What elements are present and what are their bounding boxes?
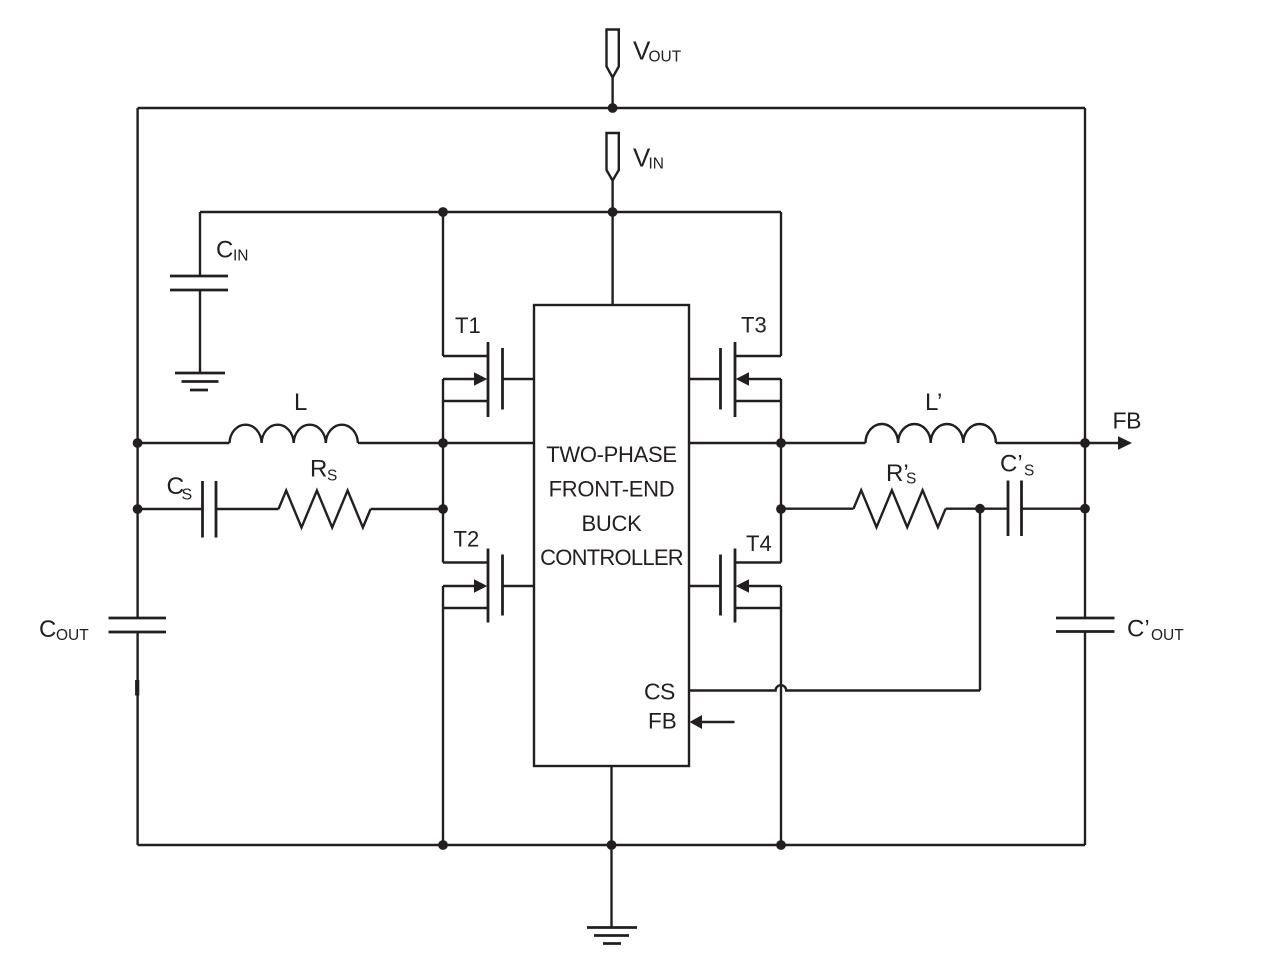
svg-text:C’: C’ [1127,616,1150,643]
svg-text:TWO-PHASE: TWO-PHASE [546,442,677,467]
label L' [925,389,942,416]
wire VIN to controller [611,212,613,305]
wire RS to node [371,508,443,510]
label R'S [886,460,916,488]
transistor T2 [443,443,534,845]
svg-text:IN: IN [649,156,665,173]
wire SW2 to L' [781,442,866,444]
svg-text:S: S [182,487,193,504]
wire L to SW1 node [358,442,443,444]
wire SW1 to controller [443,442,534,444]
FB pin arrow [690,715,735,729]
node T2 bottom junction [438,840,448,850]
svg-text:S: S [906,471,916,488]
resistor RS [279,491,371,528]
transistor T3 [689,212,781,443]
transistor T1 [443,212,534,443]
svg-text:FB: FB [1113,408,1142,434]
svg-text:L: L [294,389,307,416]
capacitor CIN [170,212,228,373]
wire controller to SW2 [689,442,781,444]
label COUT [39,616,89,644]
node L left junction [133,438,143,448]
svg-text:L’: L’ [925,389,942,416]
op-amp U1 controller box [534,305,689,766]
wire L' to FB node [996,442,1085,444]
label T4 [746,531,772,556]
svg-text:T4: T4 [746,531,772,556]
wire top VOUT rail [138,107,1085,109]
capacitor CS [138,481,279,538]
svg-text:C: C [216,237,233,264]
terminal VIN [607,133,619,212]
wire right rail lower [1084,632,1086,846]
transistor T4 [689,443,781,845]
svg-text:R: R [310,456,327,483]
node SW1 junction [438,438,448,448]
node sense junction [975,504,985,514]
svg-text:T3: T3 [741,313,767,338]
label pin FB [648,709,677,734]
label C'S [1000,451,1034,480]
terminal VOUT [607,30,619,109]
svg-text:T1: T1 [455,313,481,338]
svg-text:C: C [39,616,56,643]
svg-text:T2: T2 [454,527,480,552]
label L [294,389,307,416]
svg-text:OUT: OUT [1151,627,1184,644]
label CS [167,473,193,504]
wire ground stem [610,845,612,927]
svg-text:OUT: OUT [649,49,682,66]
node CS left junction [133,504,143,514]
label T3 [741,313,767,338]
svg-text:BUCK: BUCK [582,511,643,536]
node VIN-rail junction [608,207,618,217]
label VIN [633,143,664,173]
label CIN [216,237,249,265]
capacitor COUT [109,618,167,632]
wire bottom rail [138,844,1085,846]
node FB junction [1080,438,1090,448]
wire controller ground [610,766,612,845]
svg-text:CONTROLLER: CONTROLLER [540,545,683,570]
wire sense node down [979,509,981,691]
label T2 [454,527,480,552]
node VOUT-rail junction [608,103,618,113]
resistor R'S [854,490,946,527]
svg-text:FRONT-END: FRONT-END [549,477,675,502]
wire output node to L [138,442,230,444]
node R'S left junction [776,504,786,514]
label FB [1113,408,1142,434]
wire left rail lower [136,632,139,845]
node RS/T2 junction [438,504,448,514]
label controller text [540,442,683,570]
label T1 [455,313,481,338]
label C'OUT [1127,616,1184,645]
node C'S right junction [1080,504,1090,514]
node T4 bottom junction [776,840,786,850]
svg-text:S: S [327,468,337,485]
svg-text:FB: FB [648,709,677,734]
wire left rail upper [136,108,138,618]
label pin CS [644,679,675,705]
svg-text:IN: IN [233,248,249,265]
wire VIN rail [200,211,781,213]
capacitor C'OUT [1056,618,1115,632]
node controller ground junction [607,840,617,850]
inductor L [230,425,358,443]
svg-text:CS: CS [644,679,675,705]
wire R'S to sense node [946,508,980,510]
label VOUT [633,36,682,66]
inductor L' [866,424,996,443]
wire right rail upper [1084,108,1086,618]
svg-text:C’: C’ [1000,451,1023,478]
capacitor C'S [980,481,1085,537]
FB output arrow [1085,436,1132,450]
svg-text:OUT: OUT [56,627,89,644]
label RS [310,456,337,485]
wire T4 node to R'S [781,508,854,510]
svg-text:S: S [1024,463,1034,480]
node SW2 junction [776,438,786,448]
ground CIN [175,373,225,390]
wire CS pin with hop [689,685,980,690]
node T1 drain junction [438,207,448,217]
ground main [587,928,637,944]
